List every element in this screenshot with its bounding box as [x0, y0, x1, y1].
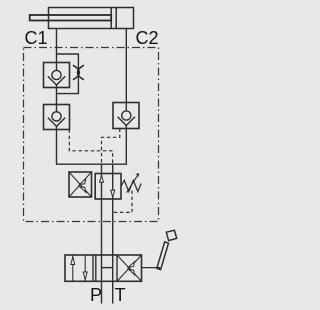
- lever arm: [157, 242, 169, 270]
- piston rod: [30, 15, 112, 21]
- wire CV2 to node bar: [56, 126, 58, 164]
- pilot line from CV3 (dashed): [102, 129, 120, 164]
- check valve CV2: [44, 105, 70, 130]
- lever knob: [166, 230, 176, 240]
- lever link: [142, 268, 160, 270]
- wire P run (bar through valves to bottom): [101, 164, 103, 303]
- svg-text:T: T: [115, 285, 126, 305]
- wire C1 line (cylinder to CV1): [56, 29, 58, 71]
- wire CV1 to CV2: [56, 85, 58, 112]
- node bar wire: [57, 163, 127, 165]
- V2 right position X: [117, 255, 142, 281]
- check valve CV1: [44, 63, 70, 88]
- arrow up in V1: [100, 175, 104, 182]
- wire C2 line (cylinder to CV3): [125, 29, 127, 112]
- svg-text:C1: C1: [25, 28, 48, 48]
- valve V1 flow position (arrows square): [95, 174, 121, 200]
- svg-text:C2: C2: [136, 28, 159, 48]
- svg-text:P: P: [90, 285, 102, 305]
- V2 center crossbar (H): [102, 267, 113, 269]
- V2 divider left b: [95, 255, 97, 281]
- pilot line to T run (dashed): [114, 191, 133, 213]
- arrow down in V1: [111, 190, 115, 197]
- wire T run: [112, 164, 114, 303]
- valve V1 blocked position (X square): [69, 172, 92, 197]
- adjustable spring of V1: [121, 180, 141, 191]
- orifice (restriction): [73, 65, 79, 80]
- spring adjust arrow: [127, 174, 139, 193]
- V2 divider right: [116, 255, 118, 281]
- pilot line from CV2 (dashed): [69, 130, 112, 164]
- directional valve V2 body: [65, 255, 142, 281]
- enclosure (manifold boundary, chain line): [24, 48, 159, 222]
- cylinder body: [49, 8, 134, 29]
- piston: [110, 8, 112, 29]
- V2 left position arrows: [72, 256, 74, 282]
- check valve CV3: [113, 103, 139, 129]
- wire CV3 to node bar: [125, 126, 127, 165]
- V2 divider left: [92, 255, 94, 281]
- bypass wire around CV1: [57, 54, 79, 94]
